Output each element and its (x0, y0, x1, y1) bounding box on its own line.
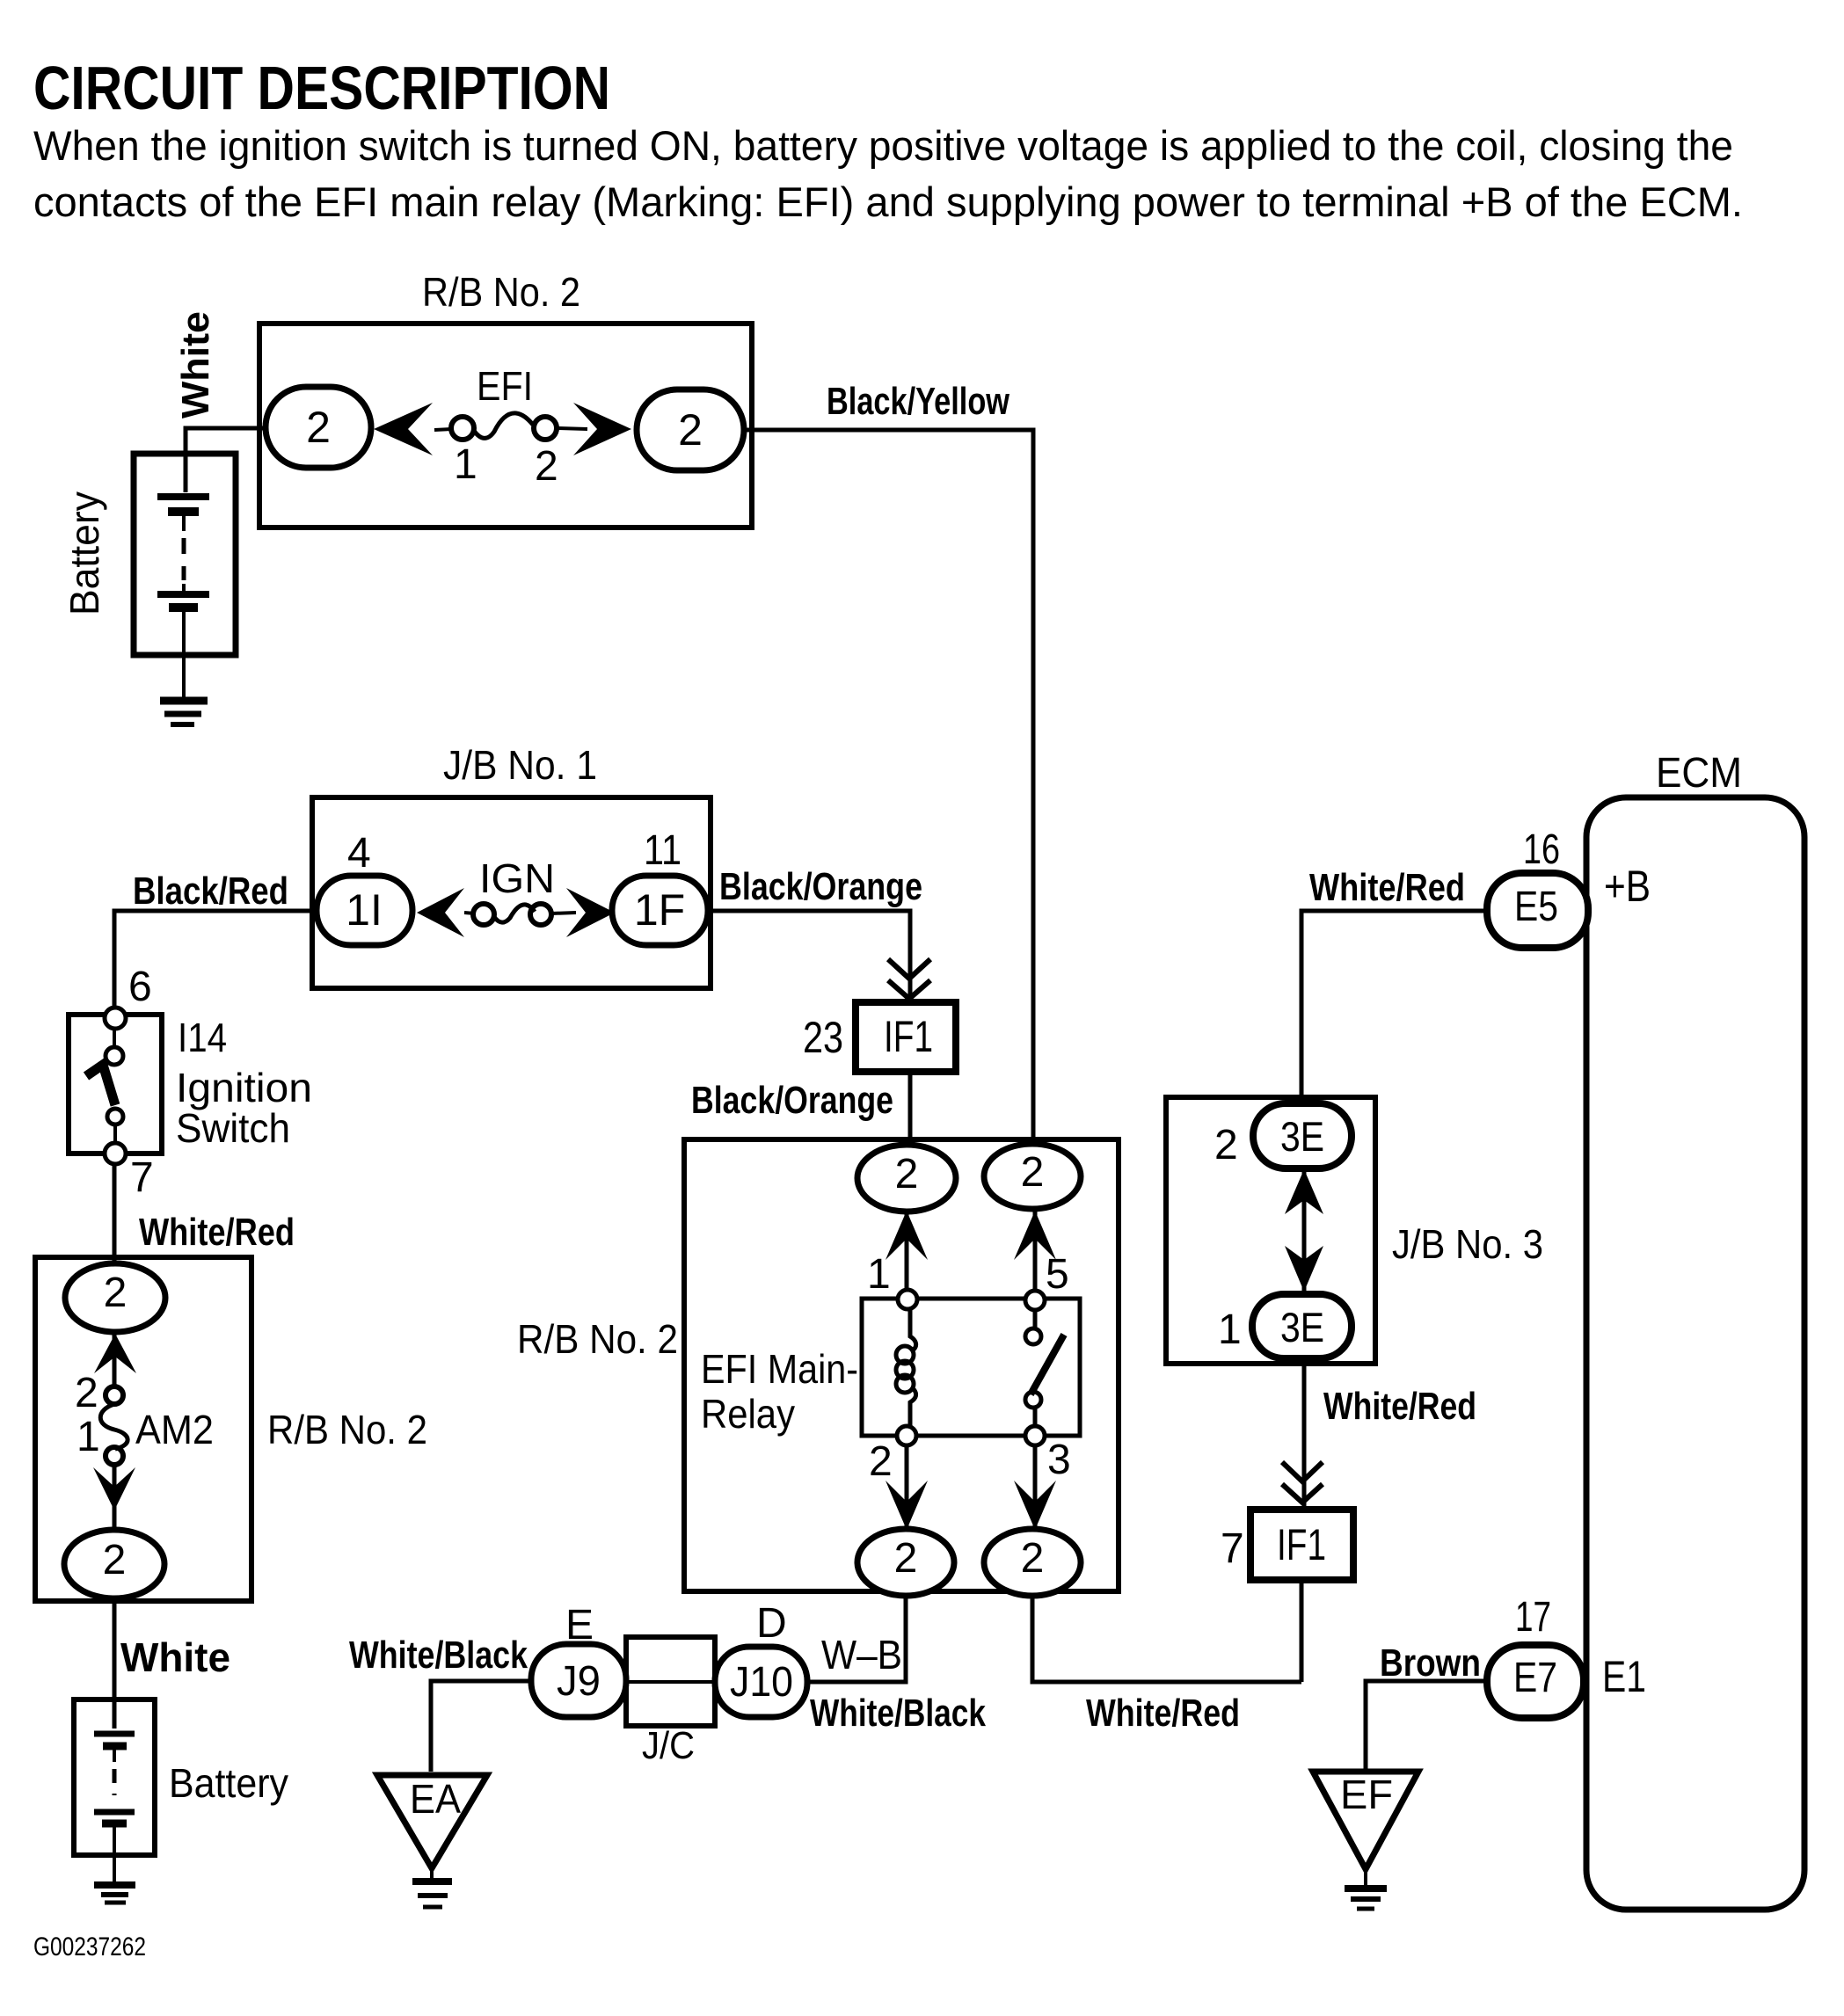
pin 6 (128, 964, 152, 1010)
svg-text:E1: E1 (1602, 1652, 1646, 1701)
pin 16 (1523, 826, 1560, 873)
svg-text:IF1: IF1 (1277, 1520, 1326, 1569)
title CIRCUIT DESCRIPTION (33, 54, 610, 122)
label EFI Main- (701, 1346, 858, 1392)
arrow (down, AM2) (93, 1467, 135, 1510)
wire battery B1 to connector (186, 428, 266, 492)
svg-text:7: 7 (1221, 1525, 1244, 1572)
pin 4 (347, 830, 371, 877)
pin 2 (relay) (869, 1438, 893, 1485)
label R/B No. 2 (relay) (517, 1316, 678, 1362)
wire label White/Black (left) (349, 1634, 528, 1677)
svg-text:2: 2 (678, 405, 703, 455)
svg-text:1: 1 (1218, 1306, 1242, 1353)
svg-text:R/B No. 2: R/B No. 2 (267, 1407, 427, 1452)
connector J9 (531, 1644, 626, 1717)
connector 3E (top) (1253, 1103, 1352, 1168)
battery B1 (134, 454, 236, 697)
arrow (down, relay right) (1014, 1481, 1056, 1530)
wire 1I to ignition switch (114, 911, 317, 1010)
wire 1F to IF1 (708, 911, 910, 1002)
label AM2 (135, 1407, 214, 1452)
svg-text:2: 2 (1021, 1535, 1045, 1582)
connector 2 (AM2 bottom) (64, 1530, 164, 1598)
relay coil (896, 1309, 916, 1426)
svg-text:11: 11 (644, 827, 681, 874)
connector 2 (relay bottom left) (857, 1529, 954, 1596)
ground point EA (377, 1775, 487, 1907)
ground (battery B2) (94, 1885, 135, 1903)
svg-text:J10: J10 (730, 1659, 793, 1706)
switch I14 ignition (69, 1008, 162, 1164)
connector 1F (612, 876, 708, 945)
svg-text:White/Red: White/Red (1309, 866, 1465, 909)
wire relay to J10 (W-B) (807, 1595, 906, 1682)
svg-text:2: 2 (869, 1438, 893, 1485)
wire J9 to EA ground (431, 1681, 531, 1772)
label ECM (1656, 750, 1742, 797)
node 2 (relay bottom left) (897, 1426, 916, 1445)
node 1 (relay top left) (898, 1290, 917, 1309)
connector 2 (AM2 top) (65, 1263, 165, 1332)
wire 3E to IF1 7 (1302, 1358, 1307, 1510)
node 5 (relay top right) (1025, 1291, 1045, 1310)
svg-text:2: 2 (104, 1270, 128, 1316)
pin 11 (644, 827, 681, 874)
arrow (double chevron into IF1 23) (888, 959, 930, 999)
svg-text:Brown: Brown (1380, 1641, 1481, 1685)
svg-text:2: 2 (894, 1535, 918, 1582)
wire label White (bottom) (120, 1634, 230, 1680)
svg-text:ECM: ECM (1656, 750, 1742, 797)
svg-text:White: White (174, 311, 217, 418)
connector 1I (317, 876, 412, 945)
pin 3 (relay) (1047, 1437, 1071, 1483)
svg-text:5: 5 (1046, 1251, 1069, 1298)
svg-text:IF1: IF1 (884, 1012, 933, 1061)
connector IF1 (pin 23) (856, 1002, 956, 1072)
label J/C (642, 1724, 695, 1767)
wire label White/Black (bottom) (810, 1692, 986, 1735)
wire IF1 to relay (908, 1072, 913, 1144)
wire label White/Red (left) (139, 1211, 295, 1254)
svg-text:2: 2 (1021, 1149, 1045, 1196)
box R/B No. 2 (top) (259, 324, 752, 528)
wire to battery B2 (113, 1598, 117, 1729)
connector 2 (EFI fuse left) (266, 387, 371, 468)
svg-text:2: 2 (535, 443, 558, 490)
pin 23 (803, 1013, 843, 1062)
svg-text:Black/Orange: Black/Orange (691, 1079, 893, 1122)
relay EFI Main inner box (862, 1299, 1080, 1436)
label R/B No. 2 (left box) (267, 1407, 427, 1452)
pin 1 (EFI fuse) (454, 441, 477, 488)
svg-text:3E: 3E (1280, 1304, 1324, 1350)
pin 17 (1515, 1594, 1551, 1641)
label Battery (vertical) (62, 491, 107, 615)
arrow (down, J/B3) (1285, 1246, 1323, 1292)
svg-text:Battery: Battery (62, 491, 107, 615)
svg-text:When the ignition switch is tu: When the ignition switch is turned ON, b… (33, 122, 1733, 169)
arrow (up, J/B3) (1285, 1169, 1323, 1214)
svg-text:2: 2 (895, 1151, 919, 1197)
wire label White (vertical) (174, 311, 217, 418)
label Switch (176, 1105, 290, 1151)
label Battery (bottom) (169, 1760, 288, 1806)
wire label Black/Orange (719, 865, 922, 908)
connector E5 (1487, 873, 1588, 948)
wire IF1 7 down (1300, 1580, 1304, 1682)
wire switch to R/B No.2 (113, 1163, 117, 1266)
description line 2 (33, 178, 1743, 225)
connector 3E (bottom) (1252, 1294, 1352, 1358)
wire AM2 branch (113, 1334, 117, 1530)
svg-text:3: 3 (1047, 1437, 1071, 1483)
svg-text:White/Red: White/Red (1086, 1692, 1240, 1735)
label Relay (701, 1391, 795, 1437)
wire relay coil branch top (907, 1207, 1035, 1292)
relay switch contact (1025, 1309, 1064, 1426)
svg-text:E5: E5 (1514, 884, 1558, 930)
svg-text:White: White (120, 1634, 230, 1680)
pin 1 (relay) (867, 1251, 891, 1298)
svg-text:EFI: EFI (477, 363, 533, 409)
svg-text:23: 23 (803, 1013, 843, 1062)
label R/B No. 2 (top box) (422, 269, 580, 315)
wire label White/Red (top) (1309, 866, 1465, 909)
svg-text:EFI Main-: EFI Main- (701, 1346, 858, 1392)
svg-text:EF: EF (1340, 1772, 1393, 1817)
description line 1 (33, 122, 1733, 169)
battery B2 (74, 1699, 155, 1882)
pin 5 (relay) (1046, 1251, 1069, 1298)
box J/B No. 1 (312, 797, 711, 988)
pin D (756, 1600, 787, 1647)
arrow (up, relay right) (1014, 1211, 1056, 1260)
svg-text:16: 16 (1523, 826, 1560, 873)
svg-text:R/B No. 2: R/B No. 2 (517, 1316, 678, 1362)
arrow (down, relay left) (886, 1481, 928, 1530)
wire relay bottom branches (907, 1445, 1035, 1530)
svg-text:J/C: J/C (642, 1724, 695, 1767)
box R/B No. 2 (left) (35, 1257, 251, 1601)
arrow (left, IGN fuse) (417, 888, 464, 937)
svg-text:+B: +B (1604, 862, 1651, 911)
svg-text:J9: J9 (557, 1658, 601, 1705)
pin 2 (EFI fuse) (535, 443, 558, 490)
svg-text:7: 7 (130, 1154, 154, 1201)
connector 2 (relay top right) (984, 1144, 1081, 1209)
wire E7 to EF ground (Brown) (1366, 1681, 1487, 1772)
svg-text:1: 1 (454, 441, 477, 488)
svg-text:I14: I14 (178, 1015, 227, 1060)
box J/B No. 3 (1166, 1097, 1375, 1364)
svg-text:J/B No. 3: J/B No. 3 (1392, 1221, 1543, 1267)
svg-text:J/B No. 1: J/B No. 1 (443, 742, 597, 788)
arrow (double chevron into IF1 7) (1282, 1462, 1323, 1503)
svg-text:AM2: AM2 (135, 1407, 214, 1452)
connector E7 (1487, 1645, 1584, 1718)
junction J/C box (626, 1637, 715, 1726)
pin 2 (AM2) (75, 1370, 98, 1416)
svg-text:White/Black: White/Black (349, 1634, 528, 1677)
pin 2 (3E) (1214, 1122, 1238, 1168)
wire label Black/Orange (2nd) (691, 1079, 893, 1122)
box R/B No. 2 (relay) (684, 1139, 1119, 1591)
pin 7 (130, 1154, 154, 1201)
svg-text:2: 2 (75, 1370, 98, 1416)
svg-text:Black/Orange: Black/Orange (719, 865, 922, 908)
wire label Black/Yellow (827, 380, 1010, 423)
pin 7 (1221, 1525, 1244, 1572)
fuse EFI (434, 363, 587, 440)
svg-text:White/Black: White/Black (810, 1692, 986, 1735)
svg-text:Black/Yellow: Black/Yellow (827, 380, 1010, 423)
svg-text:2: 2 (306, 403, 331, 452)
ECM box (1586, 797, 1804, 1910)
wire relay to IF1 7 (White/Red) (1032, 1595, 1301, 1682)
pin 1 (3E) (1218, 1306, 1242, 1353)
label E1 (1602, 1652, 1646, 1701)
svg-text:3E: 3E (1280, 1113, 1324, 1160)
svg-text:4: 4 (347, 830, 371, 877)
connector IF1 (pin 7) (1250, 1510, 1353, 1580)
svg-text:6: 6 (128, 964, 152, 1010)
svg-text:W–B: W–B (821, 1632, 902, 1678)
wire label White/Red (middle) (1323, 1385, 1476, 1428)
arrow (left, EFI fuse) (374, 403, 433, 455)
connector 2 (relay top left) (857, 1145, 956, 1212)
svg-text:Switch: Switch (176, 1105, 290, 1151)
svg-text:Relay: Relay (701, 1391, 795, 1437)
arrow (up, AM2) (94, 1334, 136, 1373)
svg-text:Ignition: Ignition (176, 1065, 312, 1110)
label +B (1604, 862, 1651, 911)
svg-text:2: 2 (1214, 1122, 1238, 1168)
wire label Black/Red (133, 870, 288, 913)
wire label White/Red (bottom) (1086, 1692, 1240, 1735)
svg-text:1: 1 (77, 1414, 100, 1460)
svg-text:White/Red: White/Red (139, 1211, 295, 1254)
svg-text:2: 2 (103, 1537, 127, 1583)
connector 2 (EFI fuse right) (637, 389, 744, 470)
fuse AM2 (100, 1386, 128, 1465)
connector J10 (715, 1647, 807, 1717)
svg-text:17: 17 (1515, 1594, 1551, 1641)
arrow (right, EFI fuse) (573, 403, 631, 455)
ground (battery B1) (160, 701, 208, 724)
node 3 (relay bottom right) (1025, 1426, 1045, 1445)
wire 3E to 3E (1302, 1168, 1307, 1294)
wire label Brown (1380, 1641, 1481, 1685)
svg-text:1: 1 (867, 1251, 891, 1298)
svg-text:Black/Red: Black/Red (133, 870, 288, 913)
label Ignition (176, 1065, 312, 1110)
svg-text:White/Red: White/Red (1323, 1385, 1476, 1428)
pin 1 (AM2) (77, 1414, 100, 1460)
label J/B No. 3 (1392, 1221, 1543, 1267)
svg-text:G00237262: G00237262 (33, 1932, 146, 1961)
figure number G00237262 (33, 1932, 146, 1961)
wire E5 to 3E (White/Red) (1301, 911, 1487, 1110)
svg-text:CIRCUIT DESCRIPTION: CIRCUIT DESCRIPTION (33, 54, 610, 122)
svg-text:D: D (756, 1600, 787, 1647)
wire Black/Yellow (744, 430, 1033, 1144)
svg-text:1F: 1F (634, 885, 685, 935)
label J/B No. 1 (443, 742, 597, 788)
svg-text:contacts of the EFI main rela: contacts of the EFI main relay (Marking:… (33, 178, 1743, 225)
svg-text:E7: E7 (1513, 1655, 1557, 1701)
fuse IGN (464, 855, 576, 925)
svg-text:EA: EA (410, 1776, 461, 1822)
svg-text:Battery: Battery (169, 1760, 288, 1806)
pin E (565, 1602, 594, 1648)
wire label W-B (821, 1632, 902, 1678)
arrow (up, relay left) (886, 1211, 928, 1260)
arrow (right, IGN fuse) (566, 888, 615, 937)
svg-text:R/B No. 2: R/B No. 2 (422, 269, 580, 315)
svg-text:1I: 1I (346, 885, 383, 935)
ground point EF (1313, 1772, 1418, 1909)
connector 2 (relay bottom right) (984, 1529, 1081, 1596)
svg-text:IGN: IGN (479, 855, 555, 901)
label I14 (178, 1015, 227, 1060)
